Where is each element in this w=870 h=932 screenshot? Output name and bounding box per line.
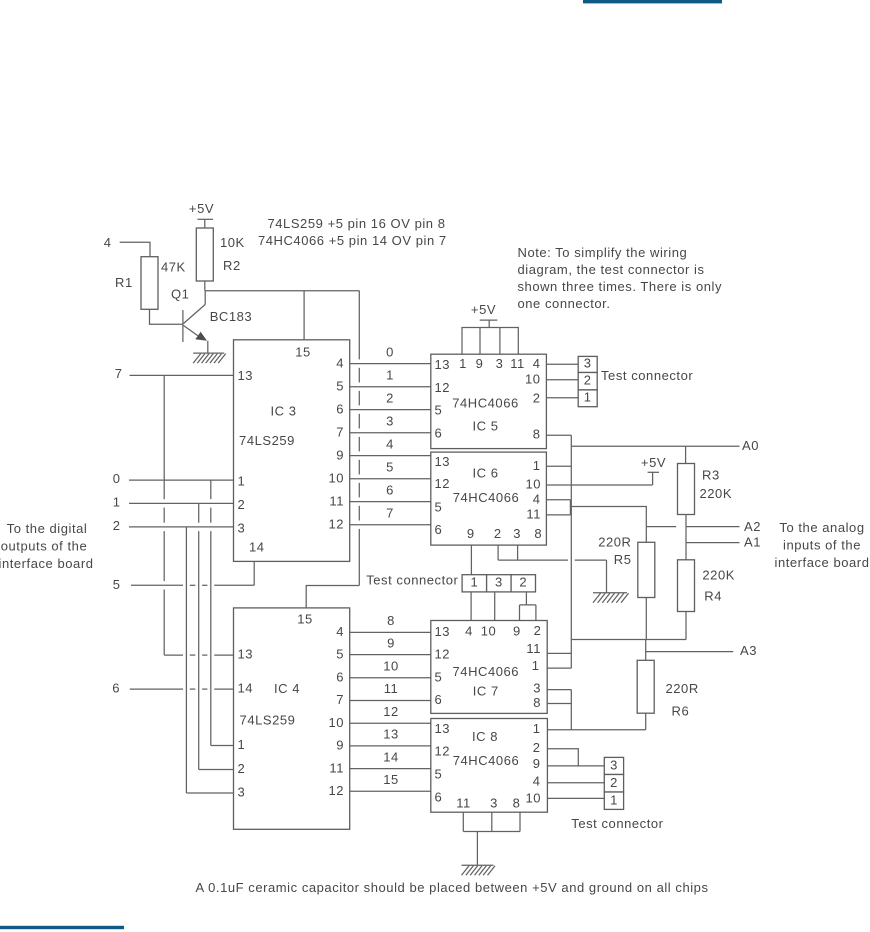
svg-text:5: 5 [435, 500, 443, 515]
svg-text:2: 2 [113, 518, 121, 533]
wire Q6 from IC3 pin 11 to 4066 [350, 501, 431, 503]
wire 0 branch down to IC4 pin 1 [211, 480, 234, 745]
wire Q12 from IC4 pin 10 to 4066 [350, 722, 431, 724]
svg-text:3: 3 [496, 356, 504, 371]
svg-text:15: 15 [295, 345, 311, 360]
resistor R2 [196, 228, 213, 281]
latch IC3 74LS259 [234, 340, 350, 562]
svg-text:shown three times. There is on: shown three times. There is only [518, 279, 723, 294]
svg-text:12: 12 [383, 704, 399, 719]
svg-text:7: 7 [336, 424, 344, 439]
node A1 [686, 535, 761, 550]
svg-text:1: 1 [610, 793, 618, 808]
latch IC4 74LS259 [234, 608, 350, 829]
wire: IC8 pin 2 jog to pin 9 wire [547, 749, 578, 766]
wire Q2 from IC3 pin 6 to 4066 [350, 409, 431, 411]
analog switch IC8 74HC4066 [431, 719, 548, 813]
svg-text:9: 9 [336, 447, 344, 462]
wire Q1 from IC3 pin 5 to 4066 [350, 386, 431, 388]
svg-text:interface board: interface board [0, 556, 93, 571]
wire 1 branch down to IC4 pin 2 [199, 503, 234, 769]
wire: middle connector 2 to IC7 pins 9,2 bracket [520, 592, 536, 621]
svg-text:47K: 47K [161, 260, 186, 275]
node A2 [646, 519, 761, 534]
ground (IC8) [462, 865, 496, 875]
wire: IC5 pin 10 to test connector 2 [546, 379, 578, 381]
svg-text:10: 10 [525, 791, 541, 806]
svg-text:5: 5 [435, 767, 443, 782]
svg-text:10: 10 [481, 624, 497, 639]
svg-text:1: 1 [238, 474, 246, 489]
svg-text:10: 10 [328, 715, 344, 730]
wire 1 to IC3 pin 2 [129, 502, 234, 504]
svg-text:12: 12 [435, 646, 451, 661]
svg-text:1: 1 [386, 367, 394, 382]
svg-text:12: 12 [435, 380, 451, 395]
wire Q7 from IC3 pin 12 to 4066 [350, 524, 431, 526]
svg-text:7: 7 [336, 692, 344, 707]
wire: R4 bottom to bottom rail [685, 612, 687, 640]
svg-text:74HC4066: 74HC4066 [452, 396, 519, 411]
svg-text:Note: To simplify the wiring: Note: To simplify the wiring [518, 245, 688, 260]
svg-text:11: 11 [329, 760, 344, 775]
svg-text:220K: 220K [700, 486, 733, 501]
ground (Q1 emitter) [193, 353, 226, 363]
svg-text:A3: A3 [740, 643, 757, 658]
svg-text:10: 10 [328, 470, 344, 485]
wire: IC6 pins 4/11 to R5 top [570, 507, 646, 543]
svg-text:11: 11 [526, 507, 541, 522]
svg-text:2: 2 [610, 775, 618, 790]
svg-text:IC 8: IC 8 [472, 729, 498, 744]
svg-text:220K: 220K [702, 568, 735, 583]
svg-text:4: 4 [104, 235, 112, 250]
wire Q13 from IC4 pin 9 to 4066 [350, 745, 431, 747]
svg-text:5: 5 [435, 670, 443, 685]
wire: R6 bottom to IC8 pin 1 rail [645, 713, 647, 730]
wire Q9 from IC4 pin 5 to 4066 [350, 654, 431, 656]
svg-text:R4: R4 [704, 589, 722, 604]
wire 5 to IC3 pin 14 [131, 561, 254, 585]
wire: middle connector 1 to IC7 pin 4 [470, 592, 472, 621]
svg-text:8: 8 [533, 695, 541, 710]
svg-text:10: 10 [383, 659, 399, 674]
wire: IC5 pin 2 to test connector 1 [546, 397, 578, 399]
wire: R1 bottom to Q1 base [150, 309, 183, 324]
svg-text:9: 9 [533, 756, 541, 771]
wire: bus elbow to IC4 pin 15 [306, 586, 359, 608]
svg-text:4: 4 [533, 356, 541, 371]
svg-text:11: 11 [526, 641, 541, 656]
svg-text:R3: R3 [702, 468, 720, 483]
svg-text:8: 8 [513, 796, 521, 811]
svg-text:3: 3 [386, 413, 394, 428]
svg-text:11: 11 [329, 493, 344, 508]
svg-text:Test connector: Test connector [601, 368, 693, 383]
svg-text:1: 1 [584, 390, 592, 405]
wire 0 to IC3 pin 1 [129, 479, 234, 481]
wire Q14 from IC4 pin 11 to 4066 [350, 768, 431, 770]
svg-text:3: 3 [610, 758, 618, 773]
svg-text:+5V: +5V [471, 302, 496, 317]
svg-text:+5V: +5V [641, 455, 666, 470]
top blue rule [583, 0, 722, 3]
wire Q11 from IC4 pin 7 to 4066 [350, 700, 431, 702]
svg-text:10: 10 [525, 372, 541, 387]
wire: bus drop to IC3 pin 15 [303, 291, 305, 340]
svg-text:3: 3 [238, 521, 246, 536]
svg-text:0: 0 [113, 471, 121, 486]
svg-text:7: 7 [115, 366, 123, 381]
+5V supply symbol (R2) [189, 201, 214, 228]
svg-text:8: 8 [534, 526, 542, 541]
svg-text:BC183: BC183 [210, 309, 253, 324]
svg-text:13: 13 [238, 647, 254, 662]
svg-text:15: 15 [297, 612, 313, 627]
wire: R3 bottom to R4 top [685, 515, 687, 560]
wire: input 4 to R1 top [120, 242, 150, 257]
wire: IC8 pin 9 to test connector 3 [547, 765, 604, 767]
svg-text:13: 13 [435, 624, 451, 639]
svg-text:R2: R2 [223, 258, 241, 273]
svg-text:1: 1 [533, 721, 541, 736]
svg-text:74HC4066: 74HC4066 [453, 490, 520, 505]
svg-text:A1: A1 [744, 535, 761, 550]
svg-text:2: 2 [386, 390, 394, 405]
svg-text:0: 0 [386, 344, 394, 359]
svg-text:3: 3 [584, 356, 592, 371]
svg-text:74LS259 +5 pin 16 OV pin 8: 74LS259 +5 pin 16 OV pin 8 [268, 216, 446, 231]
svg-text:2: 2 [494, 526, 502, 541]
svg-text:9: 9 [336, 738, 344, 753]
resistor R4 [678, 560, 695, 612]
svg-text:2: 2 [584, 372, 592, 387]
svg-text:2: 2 [533, 740, 541, 755]
svg-text:6: 6 [435, 692, 443, 707]
svg-text:220R: 220R [598, 535, 631, 550]
svg-text:10: 10 [525, 477, 541, 492]
svg-text:1: 1 [533, 458, 541, 473]
svg-text:4: 4 [336, 355, 344, 370]
svg-text:R6: R6 [672, 704, 690, 719]
wire: IC5 pin 4 to test connector 3 [546, 363, 578, 365]
svg-text:5: 5 [435, 403, 443, 418]
svg-text:14: 14 [249, 540, 265, 555]
svg-text:2: 2 [519, 575, 527, 590]
svg-text:1: 1 [459, 356, 467, 371]
svg-text:A 0.1uF ceramic capacitor shou: A 0.1uF ceramic capacitor should be plac… [195, 880, 708, 895]
wire: +5V bus from collector node to right [205, 290, 359, 292]
wire Q3 from IC3 pin 7 to 4066 [350, 432, 431, 434]
ground (IC6 switch commons) [593, 593, 629, 603]
resistor R6 [637, 660, 654, 713]
svg-text:11: 11 [510, 356, 525, 371]
wire: R2 bottom to collector bus [204, 281, 206, 291]
svg-text:R5: R5 [614, 552, 632, 567]
svg-text:9: 9 [387, 635, 395, 650]
svg-text:13: 13 [435, 721, 451, 736]
svg-text:14: 14 [383, 749, 399, 764]
wire: IC7 pins 11,1 bracket to bottom rail [547, 653, 572, 668]
wire: IC8 pin 1 rail to R6 bottom [547, 729, 645, 731]
svg-text:6: 6 [336, 401, 344, 416]
svg-text:4: 4 [336, 624, 344, 639]
wire Q10 from IC4 pin 6 to 4066 [350, 677, 431, 679]
svg-text:8: 8 [387, 613, 395, 628]
wire: +5V bus bar over IC5 [461, 328, 519, 355]
svg-text:6: 6 [435, 522, 443, 537]
svg-text:11: 11 [384, 681, 399, 696]
left label: To the digital outputs of the interface board [0, 521, 93, 571]
svg-text:4: 4 [533, 774, 541, 789]
svg-text:13: 13 [383, 727, 399, 742]
wire Q8 from IC4 pin 4 to 4066 [350, 631, 431, 633]
svg-text:+5V: +5V [189, 201, 214, 216]
svg-text:6: 6 [112, 681, 120, 696]
analog switch IC6 74HC4066 [431, 452, 547, 545]
wire Q5 from IC3 pin 10 to 4066 [350, 478, 431, 480]
svg-text:9: 9 [513, 624, 521, 639]
node A3 [646, 643, 757, 658]
svg-text:2: 2 [533, 391, 541, 406]
svg-text:74LS259: 74LS259 [240, 713, 296, 728]
analog switch IC5 74HC4066 [431, 354, 547, 448]
svg-text:Test connector: Test connector [571, 816, 663, 831]
svg-text:6: 6 [435, 426, 443, 441]
svg-text:one connector.: one connector. [518, 296, 611, 311]
svg-text:IC 4: IC 4 [274, 681, 300, 696]
wire: IC5 pin 8 to common rail [546, 434, 571, 436]
resistor R3 [678, 464, 695, 515]
svg-text:13: 13 [238, 368, 254, 383]
svg-text:74HC4066: 74HC4066 [453, 664, 520, 679]
svg-text:3: 3 [238, 785, 246, 800]
svg-text:5: 5 [113, 577, 121, 592]
svg-text:diagram, the test connector is: diagram, the test connector is [518, 262, 705, 277]
svg-text:10K: 10K [220, 235, 245, 250]
svg-text:7: 7 [386, 505, 394, 520]
svg-text:IC 3: IC 3 [270, 404, 296, 419]
resistor R5 [638, 542, 655, 597]
svg-text:8: 8 [533, 427, 541, 442]
wire: IC8 pin 10 to test connector 1 [547, 797, 604, 799]
wire 7 to IC3 pin 13 [130, 374, 234, 376]
svg-text:9: 9 [467, 526, 475, 541]
wire: IC6 pin 1 to common rail [546, 465, 571, 467]
wire Q4 from IC3 pin 9 to 4066 [350, 455, 431, 457]
wire: R5 bottom to bottom rail [645, 598, 647, 640]
wire Q15 from IC4 pin 12 to 4066 [350, 790, 431, 792]
wire 2 to IC3 pin 3 [129, 526, 234, 528]
wire: IC6 pins 4 and 11 bracket [546, 500, 570, 515]
svg-text:12: 12 [435, 744, 451, 759]
svg-text:12: 12 [328, 783, 344, 798]
svg-text:IC 5: IC 5 [472, 419, 498, 434]
svg-text:1: 1 [238, 737, 246, 752]
svg-text:5: 5 [386, 459, 394, 474]
wire: IC6 pins 2,3 bracket to ground [498, 545, 606, 593]
svg-text:15: 15 [383, 772, 399, 787]
test connector (middle) [462, 575, 535, 592]
svg-text:74LS259: 74LS259 [239, 433, 295, 448]
svg-text:4: 4 [465, 624, 473, 639]
svg-text:11: 11 [456, 796, 471, 811]
wire: IC8 pin 4 to test connector 2 [547, 782, 604, 784]
resistor R1 [141, 257, 158, 310]
svg-text:14: 14 [238, 681, 254, 696]
svg-text:6: 6 [435, 789, 443, 804]
svg-text:IC 7: IC 7 [473, 684, 499, 699]
svg-text:13: 13 [435, 454, 451, 469]
wire: IC7 pins 3,8 bracket to IC8 pin 1 rail [547, 690, 572, 730]
svg-text:To the digital: To the digital [7, 521, 88, 536]
svg-text:2: 2 [534, 623, 542, 638]
svg-text:1: 1 [532, 658, 540, 673]
wire 7 branch down to IC4 pin 13 [164, 375, 233, 655]
+5V supply symbol (right) [641, 455, 666, 485]
svg-text:1: 1 [471, 575, 479, 590]
svg-text:3: 3 [513, 526, 521, 541]
svg-text:2: 2 [238, 761, 246, 776]
svg-text:220R: 220R [666, 681, 699, 696]
wire: IC6 pin 10 to +5V [546, 484, 652, 486]
+5V supply symbol (IC5) [471, 302, 497, 328]
wire: IC8 pins 11,3,8 to ground bar [463, 812, 520, 865]
svg-text:9: 9 [476, 356, 484, 371]
wire: A0 to R3 top [685, 446, 687, 463]
svg-text:74HC4066 +5 pin 14 OV pin 7: 74HC4066 +5 pin 14 OV pin 7 [258, 233, 447, 248]
svg-text:6: 6 [336, 670, 344, 685]
svg-text:interface board: interface board [775, 555, 870, 570]
svg-text:12: 12 [328, 516, 344, 531]
svg-text:IC 6: IC 6 [472, 465, 498, 480]
note text block [518, 245, 723, 311]
svg-text:12: 12 [435, 476, 451, 491]
svg-text:Q1: Q1 [171, 286, 189, 301]
wire 6 to IC4 pin 14 [130, 688, 183, 690]
node A0 [571, 438, 759, 453]
wire 2 branch down to IC4 pin 3 [186, 527, 233, 793]
svg-text:outputs of the: outputs of the [1, 539, 87, 554]
svg-text:74HC4066: 74HC4066 [453, 753, 520, 768]
test connector (top) [578, 356, 597, 407]
svg-text:1: 1 [113, 495, 121, 510]
wire: R6 top / A3 tap [645, 640, 647, 661]
svg-text:5: 5 [336, 378, 344, 393]
wire Q0 from IC3 pin 4 to 4066 [350, 363, 431, 365]
bottom blue rule [0, 926, 124, 929]
wire: common rail vertical (IC5 pin 8 / A0 / IC6 pin 1 down to R5,R4 bottom rail) [570, 435, 572, 668]
svg-text:3: 3 [495, 575, 503, 590]
right label: To the analog inputs of the interface board [775, 520, 870, 570]
wire: middle connector 3 to IC7 pin 10 [494, 592, 496, 621]
wire: bottom rail (R5/R4 bottoms to IC7 pins 11,1) [571, 639, 686, 641]
svg-text:A2: A2 [744, 519, 761, 534]
svg-text:4: 4 [386, 436, 394, 451]
svg-text:inputs of the: inputs of the [783, 538, 861, 553]
svg-text:5: 5 [336, 646, 344, 661]
svg-text:Test connector: Test connector [366, 573, 458, 588]
transistor Q1 [183, 291, 208, 353]
test connector (bottom) [604, 757, 623, 809]
svg-text:A0: A0 [742, 438, 759, 453]
wire: IC6 pin 9 to test connector pin 1 [470, 545, 472, 575]
svg-text:To the analog: To the analog [779, 520, 864, 535]
svg-text:3: 3 [490, 796, 498, 811]
svg-text:2: 2 [238, 497, 246, 512]
svg-text:3: 3 [533, 681, 541, 696]
analog switch IC7 74HC4066 [431, 621, 547, 714]
wire: bus vertical down right of IC3 (crosses output wires) [358, 291, 360, 360]
svg-text:R1: R1 [115, 275, 133, 290]
svg-text:13: 13 [435, 357, 451, 372]
svg-text:4: 4 [533, 491, 541, 506]
svg-text:6: 6 [386, 482, 394, 497]
